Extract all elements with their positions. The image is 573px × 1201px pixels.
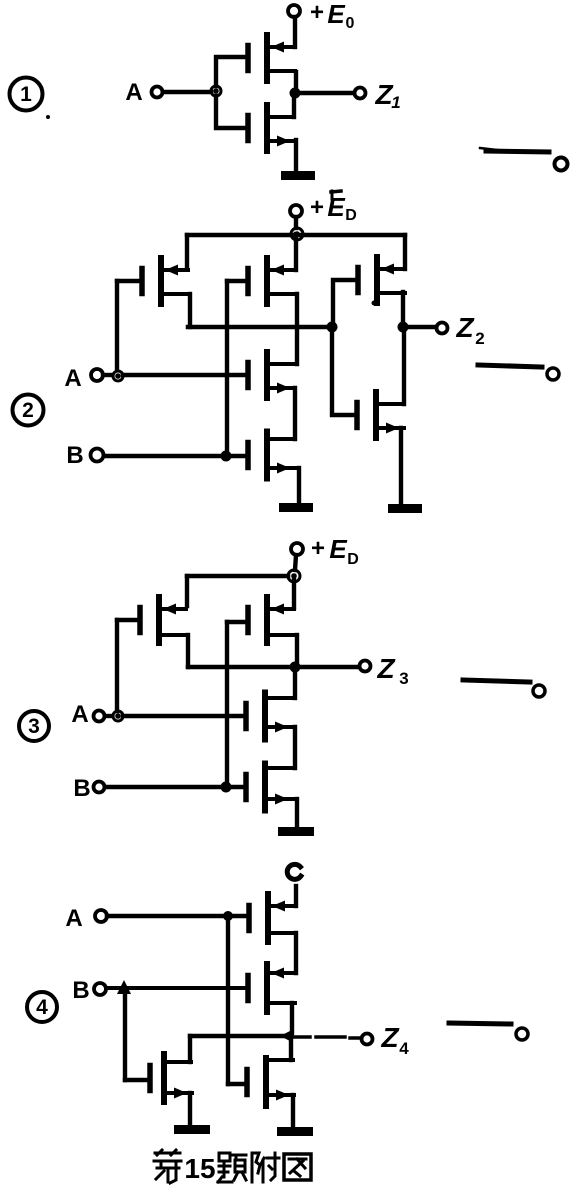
wire junction to lower gate [216, 96, 246, 128]
caption 第15题附图 [154, 1150, 311, 1184]
wire V8 source to ground [297, 468, 301, 503]
wire stub right margin 2 [478, 365, 542, 367]
wire A line to V13 gate [107, 914, 247, 919]
svg-text:+: + [311, 535, 325, 562]
wire gate V4 lead [227, 279, 248, 283]
transistor V5 PMOS inverter [358, 257, 405, 303]
input terminal B circuit 3 [94, 782, 105, 793]
transistor V3 PMOS input A [142, 258, 189, 304]
wire gate V10 lead [227, 620, 248, 624]
wire A terminal to junction circuit 3 [105, 714, 112, 718]
circled number 3 [19, 711, 49, 741]
terminal right margin 3 [533, 685, 545, 697]
wire rail to V3 source [185, 235, 189, 268]
transistor V11 NMOS input A [246, 693, 293, 740]
wire B gate riser circuit 3 [225, 622, 229, 782]
wire gate V15 lead [125, 1078, 150, 1082]
wire stub right margin 3 [463, 680, 530, 682]
svg-text:E: E [327, 192, 345, 222]
transistor V12 NMOS input B [246, 764, 293, 811]
svg-text:D: D [347, 551, 359, 568]
wire V5 drain to output node [401, 292, 405, 323]
wire V1 source to +E0 [293, 17, 297, 47]
ground circuit 3 [278, 827, 314, 836]
node A junction circuit 2 [113, 371, 123, 381]
label Z2 [455, 312, 484, 348]
terminal +ED circuit 2 [290, 205, 302, 217]
ink speck circuit 2 [372, 301, 377, 306]
svg-text:1: 1 [20, 83, 32, 106]
wire V13 source to +ED [294, 886, 298, 906]
transistor V10 PMOS input B [248, 597, 295, 643]
transistor V7 NMOS input A [248, 352, 295, 398]
node output Z3 junction [290, 662, 301, 673]
wire V15 source to ground [188, 1093, 192, 1126]
wire stub right margin 4 [449, 1023, 511, 1024]
output terminal Z4 [362, 1034, 373, 1045]
wire V3 drain down to NAND node [188, 294, 192, 327]
wire top supply rail circuit 2 [187, 233, 405, 238]
wire output node to terminal Z1 [300, 91, 354, 95]
wire top supply rail circuit 3 [187, 574, 288, 579]
ground NAND circuit 2 [279, 503, 313, 512]
wire V16 source to ground [291, 1095, 295, 1128]
svg-text:2: 2 [22, 399, 34, 422]
transistor V4 PMOS input B [248, 258, 295, 304]
output terminal Z1 [355, 88, 366, 99]
label Z1 [374, 79, 400, 112]
wire V14 drain to output node [290, 1003, 294, 1033]
circled number 4 [27, 992, 57, 1022]
wire output node to terminal Z2 [409, 325, 436, 329]
terminal +ED circuit 4 (partially printed) [287, 864, 301, 879]
wire rail to V5 source [403, 235, 407, 269]
transistor V16 NMOS input A [247, 1058, 294, 1106]
svg-text:4: 4 [399, 1039, 409, 1058]
node B junction circuit 4 [117, 980, 131, 994]
wire V16 drain up to output node [289, 1036, 293, 1060]
svg-text:Z: Z [455, 312, 474, 343]
input terminal B circuit 4 [94, 983, 106, 995]
wire NAND node line circuit 3 [188, 665, 292, 670]
wire A line to V11 gate [123, 714, 244, 718]
node A junction circuit 4 [223, 911, 233, 921]
transistor V9 PMOS input A [140, 597, 187, 643]
wire gate V16 lead [228, 1082, 247, 1086]
wire V15 drain up to output node [188, 1036, 192, 1062]
input terminal A circuit 3 [94, 711, 105, 722]
node output Z4 junction [280, 1030, 292, 1042]
transistor V2 NMOS [248, 105, 295, 151]
terminal right margin 2 [547, 368, 559, 380]
wire B gate riser circuit 2 [225, 281, 229, 451]
label +ED circuit 2 [310, 192, 357, 224]
wire NAND node line circuit 2 [188, 325, 329, 330]
input terminal A1 [152, 87, 163, 98]
svg-text:3: 3 [28, 715, 40, 738]
wire B line to V14 gate [106, 986, 246, 990]
svg-text:+: + [310, 0, 324, 26]
wire B line to V8 gate [104, 454, 246, 458]
wire NAND node to V6 gate lead [332, 332, 355, 415]
wire A gate riser circuit 3 [115, 620, 119, 711]
label Z3 [376, 653, 408, 688]
terminal +ED circuit 3 [291, 543, 303, 555]
terminal +E0 [288, 5, 300, 17]
svg-text:A: A [65, 905, 82, 932]
transistor V14 PMOS input B [248, 964, 295, 1012]
svg-text:A: A [125, 79, 142, 106]
wire V1 drain to output node [294, 72, 298, 88]
ink speck below ground 1 [331, 191, 341, 199]
svg-text:0: 0 [346, 15, 355, 32]
ink speck below circled 1 [46, 115, 50, 119]
wire gate V3 lead [117, 279, 142, 283]
svg-text:B: B [72, 977, 89, 1004]
svg-text:Z: Z [380, 1022, 399, 1053]
wire junction to upper gate [216, 57, 246, 86]
transistor V6 NMOS inverter [357, 392, 404, 438]
wire rail to V9 source [185, 576, 189, 606]
ground right circuit 4 [277, 1127, 313, 1136]
wire V13 drain to V14 source [294, 933, 298, 973]
svg-text:B: B [66, 442, 83, 469]
transistor V15 NMOS input B [150, 1054, 192, 1102]
svg-text:Z: Z [376, 653, 395, 684]
wire V7 source to V8 drain [293, 388, 297, 439]
wire V4 drain to V6 drain [295, 294, 299, 364]
svg-text:E: E [329, 534, 347, 564]
circled number 2 [13, 395, 44, 426]
wire V10 source to rail junction [292, 576, 296, 608]
wire A gate riser circuit 2 [115, 281, 119, 370]
ground circuit 1 [281, 171, 315, 180]
wire output node down to V6 drain [402, 332, 406, 404]
output terminal Z2 [437, 323, 448, 334]
wire V10 drain to node [295, 635, 299, 662]
svg-text:D: D [345, 207, 357, 224]
node A junction circuit 3 [113, 711, 123, 721]
wire node down to V11 drain [293, 672, 297, 698]
wire stub right margin 1 [480, 148, 549, 152]
wire V6 source to ground [399, 428, 403, 505]
wire V9 drain to NAND node [186, 635, 190, 667]
output terminal Z3 [360, 661, 371, 672]
node NAND output junction [327, 322, 338, 333]
wire +ED terminal to rail [294, 217, 298, 228]
wire gate V9 lead [117, 618, 140, 622]
svg-text:+: + [310, 194, 324, 221]
node B junction circuit 3 [221, 782, 232, 793]
svg-text:15: 15 [184, 1153, 215, 1184]
input terminal B circuit 2 [91, 449, 104, 462]
node +ED rail junction circuit 3 [288, 570, 300, 582]
wire V12 source to ground [295, 799, 299, 828]
wire A gate riser down circuit 4 [226, 921, 230, 1084]
transistor V8 NMOS input B [248, 432, 295, 479]
terminal right margin 1 [555, 158, 568, 171]
wire V2 source to ground [294, 140, 298, 172]
wire A line to V7 gate [123, 373, 246, 377]
node output Z2 junction [398, 322, 409, 333]
node output Z1 junction [290, 88, 301, 99]
svg-text:2: 2 [475, 329, 484, 348]
transistor V1 PMOS [248, 35, 295, 81]
wire V4 source to rail junction [294, 234, 298, 270]
svg-text:E: E [327, 0, 345, 29]
wire A1 to gate junction [163, 90, 211, 94]
wire B gate riser down circuit 4 [123, 988, 127, 1080]
node B junction circuit 2 [221, 451, 232, 462]
node +ED rail junction [291, 228, 303, 240]
wire V2 drain to output node [292, 98, 296, 117]
input terminal A circuit 4 [95, 910, 107, 922]
wire V11 source to V12 drain [293, 727, 297, 768]
ground left circuit 4 [174, 1125, 210, 1134]
wire node to terminal Z3 [301, 665, 359, 669]
wire output node line circuit 4 [190, 1034, 283, 1038]
svg-text:3: 3 [399, 669, 408, 688]
svg-text:A: A [71, 701, 88, 728]
svg-text:B: B [73, 775, 90, 802]
transistor V13 PMOS input A [249, 894, 296, 942]
label +ED circuit 3 [311, 534, 359, 568]
wire A terminal to junction [103, 373, 112, 377]
wire node to terminal Z4 (broken print) [294, 1037, 361, 1038]
circled number 1 [10, 78, 43, 111]
svg-text:4: 4 [36, 996, 48, 1019]
wire +ED terminal to junction [295, 555, 296, 570]
wire NAND node to V5 gate [333, 280, 356, 327]
svg-text:1: 1 [391, 93, 400, 112]
node gate junction circuit 1 [211, 86, 221, 96]
label Z4 [380, 1022, 409, 1058]
terminal right margin 4 [516, 1028, 528, 1040]
input terminal A circuit 2 [91, 369, 103, 381]
label +E0 [310, 0, 355, 32]
ground inverter circuit 2 [388, 504, 422, 513]
wire B line to V12 gate [105, 785, 244, 789]
svg-text:A: A [64, 365, 81, 392]
